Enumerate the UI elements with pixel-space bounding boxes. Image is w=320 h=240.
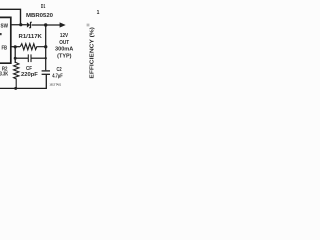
wire VIN top rail — [0, 9, 21, 24]
capacitor C2 — [42, 71, 50, 74]
node R1 output junction — [44, 45, 47, 48]
resistor R1 zigzag — [20, 44, 46, 50]
node ground junction — [14, 87, 17, 90]
wire SW pin to diode — [11, 24, 27, 26]
svg-text:220pF: 220pF — [21, 72, 38, 78]
node CF junction — [14, 57, 17, 60]
node cut-off mark inside IC — [0, 33, 2, 35]
wire FB pin — [11, 46, 20, 48]
svg-text:FB: FB — [2, 45, 8, 51]
svg-text:12V: 12V — [60, 33, 69, 39]
svg-text:MBR0520: MBR0520 — [26, 13, 53, 19]
svg-text:4.7µF: 4.7µF — [52, 74, 62, 80]
svg-text:EFFICIENCY (%): EFFICIENCY (%) — [90, 27, 96, 79]
svg-text:1: 1 — [97, 10, 100, 16]
capacitor CF — [15, 54, 46, 62]
svg-text:(TYP): (TYP) — [57, 53, 72, 59]
svg-text:C2: C2 — [57, 67, 62, 73]
node output top junction — [44, 23, 47, 26]
wire output arrow head — [60, 22, 66, 27]
svg-text:R1/117K: R1/117K — [19, 34, 43, 40]
wire output vertical rail — [45, 25, 47, 70]
svg-text:300mA: 300mA — [55, 47, 74, 53]
node CF output junction — [45, 57, 47, 59]
wire FB vertical column — [14, 47, 16, 63]
resistor R2 zigzag — [14, 62, 19, 88]
svg-text:D1: D1 — [41, 4, 46, 10]
svg-text:OUT: OUT — [59, 40, 70, 46]
diode D1 MBR0520 schottky — [27, 22, 32, 28]
node FB junction — [14, 45, 17, 48]
svg-text:SW: SW — [1, 23, 9, 29]
op-amp U1 IC box outline — [0, 17, 11, 63]
label faint mark right edge — [87, 24, 90, 27]
svg-text:1613 TA01: 1613 TA01 — [49, 83, 61, 87]
wire diode to output arrow — [32, 24, 60, 26]
ground rail wire — [0, 74, 46, 88]
svg-text:13.3K: 13.3K — [0, 72, 8, 78]
node SW junction — [19, 23, 22, 26]
